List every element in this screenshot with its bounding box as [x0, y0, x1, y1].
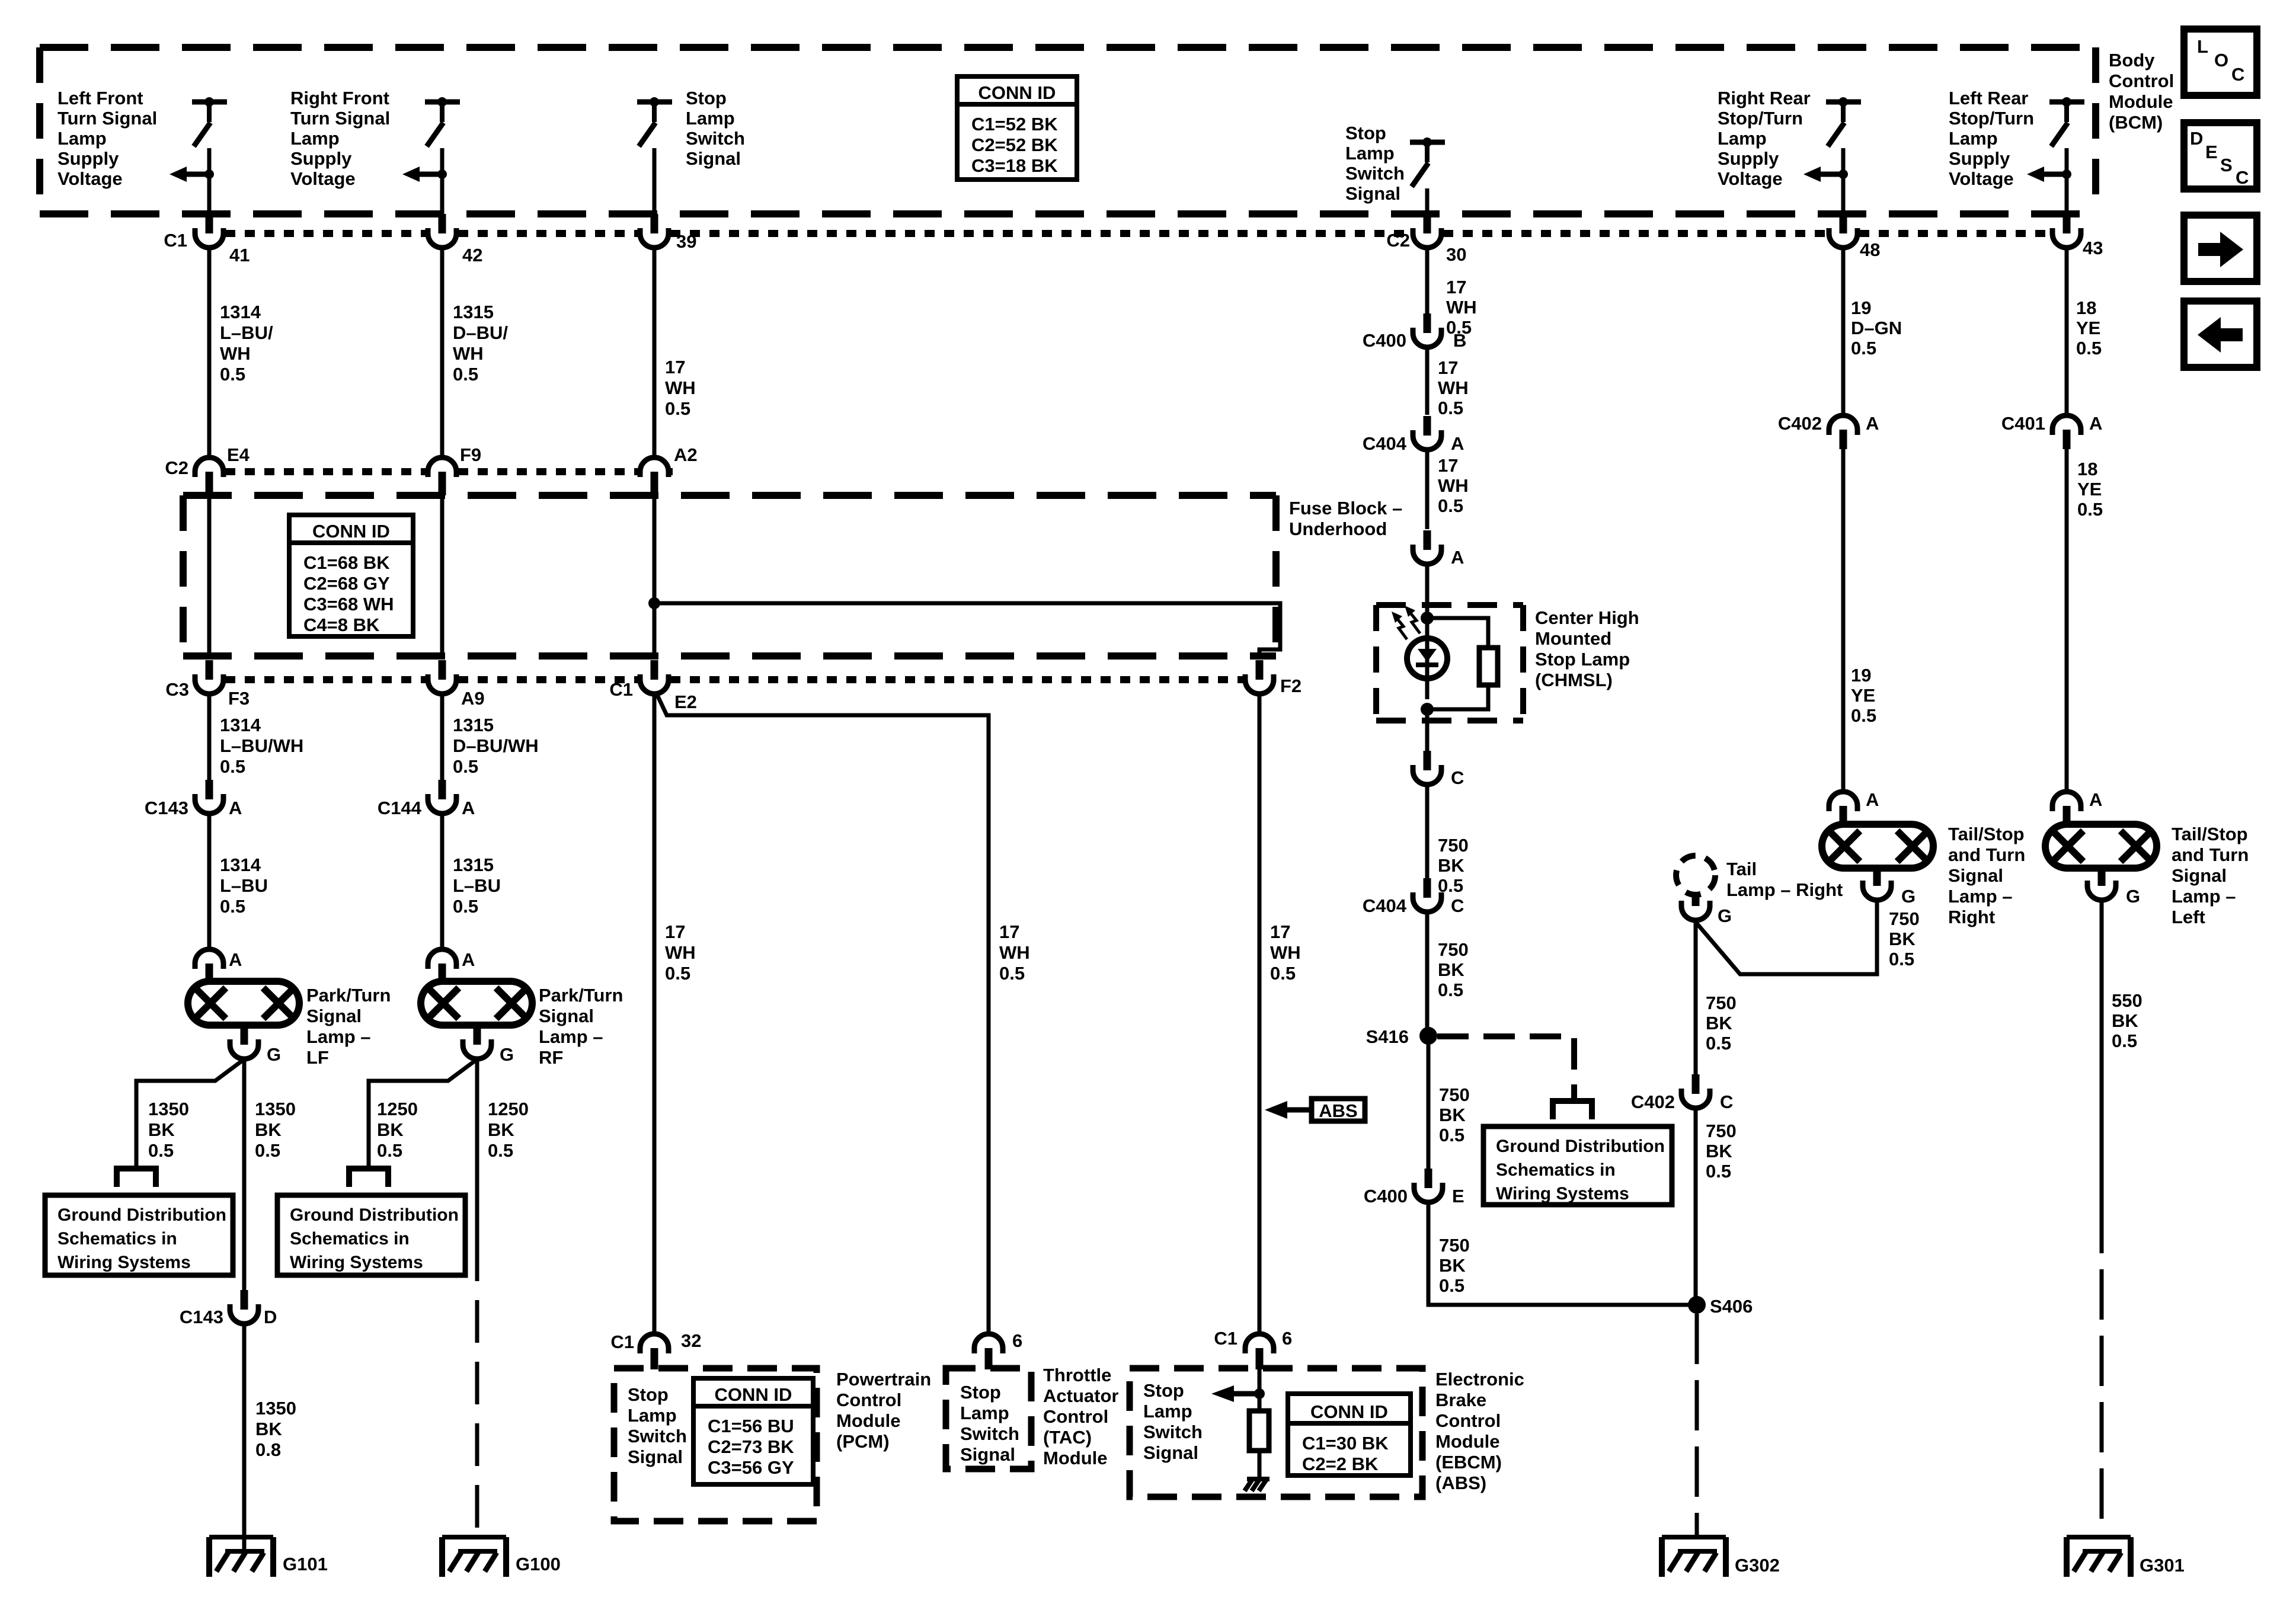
harness dotted line row 2: [225, 468, 426, 475]
svg-text:C2=68 GY: C2=68 GY: [303, 573, 390, 594]
svg-text:G: G: [500, 1044, 514, 1065]
svg-text:A: A: [462, 949, 475, 970]
svg-text:C3: C3: [165, 679, 189, 700]
wire through fuse block col B: [440, 495, 445, 660]
svg-text:A: A: [1866, 789, 1879, 810]
dashed wire to G302: [1695, 1314, 1699, 1537]
svg-text:C2: C2: [1386, 230, 1410, 251]
svg-text:G301: G301: [2140, 1555, 2185, 1576]
connector pin 42: [439, 214, 446, 233]
wire through fuse block col A: [207, 495, 212, 660]
connector pin A (RR lamp): [1829, 792, 1857, 811]
svg-text:G: G: [267, 1044, 281, 1065]
connector C2 pin 30: [1424, 214, 1431, 233]
connector pin F9: [428, 457, 456, 477]
svg-text:C3=56 GY: C3=56 GY: [708, 1457, 794, 1478]
switch Stop Lamp Switch Signal (right): [1410, 140, 1445, 145]
connector pin A (LR lamp): [2052, 792, 2081, 811]
connector pin 43: [2063, 214, 2071, 233]
Electronic Brake Control Module dashed box: [1130, 1368, 1422, 1497]
connector C404 pin A: [1424, 416, 1431, 436]
svg-text:C3=18 BK: C3=18 BK: [971, 155, 1058, 176]
wire 750 BK 0.5 to S406: [1428, 1202, 1697, 1305]
svg-text:Fuse Block –Underhood: Fuse Block –Underhood: [1289, 498, 1402, 539]
off-page ground clamp (RF): [349, 1169, 388, 1187]
connector C143 pin A: [206, 780, 213, 799]
svg-text:A: A: [229, 949, 242, 970]
wire 750 BK 0.5 (RR lamp ground): [1696, 900, 1877, 974]
connector pin A9: [439, 660, 446, 680]
ABS reference arrow and box: [1265, 1101, 1287, 1119]
wire 17 WH 0.5: [1425, 450, 1430, 529]
lamp Tail/Stop and Turn Signal Lamp - Left: [2045, 824, 2157, 868]
svg-text:48: 48: [1860, 239, 1880, 260]
connector pin A2: [640, 457, 669, 477]
svg-text:C402: C402: [1631, 1092, 1675, 1112]
connector C1 pin E2: [651, 660, 658, 680]
Fuse Block - Underhood dashed box: [183, 492, 1276, 499]
svg-text:C: C: [1451, 767, 1464, 788]
switch Stop Lamp Switch Signal (left): [637, 100, 672, 105]
svg-text:A: A: [229, 798, 242, 818]
svg-text:C1: C1: [1214, 1328, 1237, 1349]
svg-text:A: A: [1866, 413, 1879, 434]
wire 1350 BK 0.8 to G101: [242, 1324, 247, 1551]
svg-text:C: C: [2236, 167, 2249, 188]
svg-text:C143: C143: [145, 798, 188, 818]
svg-text:E2: E2: [674, 692, 697, 712]
legend arrow left box: [2184, 301, 2257, 367]
connector C2 pin E4: [195, 457, 223, 477]
svg-text:G: G: [1901, 886, 1916, 907]
wire 750 BK 0.5: [1427, 1036, 1431, 1169]
wire 1314 L-BU 0.5: [207, 814, 212, 949]
svg-text:ABS: ABS: [1319, 1100, 1357, 1121]
wire from F2 down to EBCM: [1258, 694, 1262, 1334]
svg-text:C1=56 BU: C1=56 BU: [708, 1416, 794, 1436]
svg-text:G100: G100: [516, 1554, 561, 1574]
lamp Park/Turn Signal Lamp - LF: [188, 981, 299, 1025]
resistor (EBCM): [1249, 1411, 1269, 1451]
svg-text:C: C: [2231, 64, 2244, 85]
node splice S416: [1419, 1027, 1437, 1045]
connector pin A (RF lamp): [428, 949, 456, 969]
ground G100: [442, 1535, 506, 1539]
dashed branch from S416 to ground ref: [1437, 1036, 1574, 1099]
CONN ID table (BCM connectors): [957, 76, 1077, 180]
DESC legend box: [2184, 123, 2257, 189]
wire 1315 D-BU/WH 0.5 (right front): [440, 248, 445, 458]
connector C400 pin E: [1425, 1169, 1432, 1188]
connector pin G (LR lamp): [2098, 868, 2106, 886]
off-page ground clamp (S416): [1553, 1101, 1592, 1119]
lamp Park/Turn Signal Lamp - RF: [421, 981, 532, 1025]
wire into CHMSL: [1425, 564, 1430, 618]
svg-text:G: G: [1718, 905, 1732, 926]
wire 17 WH 0.5 (stop lamp switch signal): [653, 248, 657, 458]
svg-text:E: E: [1452, 1186, 1464, 1206]
svg-text:G101: G101: [283, 1554, 328, 1574]
wire 1350 BK 0.5 down to C143 D: [242, 1059, 247, 1290]
svg-text:43: 43: [2083, 238, 2103, 258]
svg-text:C401: C401: [2001, 413, 2045, 434]
svg-text:O: O: [2214, 50, 2228, 71]
LED emission arrows: [1395, 616, 1407, 639]
connector pin 48: [1840, 214, 1847, 233]
ground G101: [209, 1535, 273, 1539]
svg-text:G302: G302: [1735, 1555, 1780, 1576]
svg-text:CONN ID: CONN ID: [978, 82, 1056, 103]
svg-text:C1=30 BK: C1=30 BK: [1302, 1433, 1389, 1454]
wire 17 WH 0.5 from C2-30: [1425, 248, 1430, 313]
svg-text:E: E: [2205, 142, 2218, 162]
wire from E2 down to PCM: [653, 694, 657, 1334]
svg-text:C400: C400: [1364, 1186, 1408, 1206]
switch Right Front Turn Signal Lamp Supply Voltage: [425, 100, 460, 105]
wire branch to F2 inside fuse block: [654, 603, 1280, 660]
wire 1314 L-BU/WH 0.5 to C143: [207, 694, 212, 780]
svg-text:41: 41: [229, 245, 250, 265]
connector C1 pin 41: [206, 214, 213, 233]
svg-text:C1: C1: [610, 1331, 634, 1352]
connector C402 pin A: [1829, 415, 1857, 435]
svg-text:C1: C1: [609, 679, 633, 700]
ground G301: [2067, 1535, 2131, 1539]
svg-text:D: D: [264, 1307, 277, 1327]
wire 750 BK 0.5: [1425, 912, 1430, 1036]
svg-text:C143: C143: [180, 1307, 223, 1327]
svg-text:C400: C400: [1363, 330, 1406, 351]
LOC legend box: [2184, 29, 2257, 95]
Throttle Actuator Control Module dashed box: [946, 1368, 1031, 1469]
harness dotted line row 1: [225, 230, 426, 237]
node junction in fuse block: [648, 597, 660, 609]
svg-text:C2=52 BK: C2=52 BK: [971, 135, 1058, 155]
CONN ID table (fuse block): [289, 515, 413, 636]
Powertrain Control Module dashed box: [614, 1368, 817, 1521]
node top junction (CHMSL): [1421, 612, 1434, 625]
connector pin G (RF lamp): [474, 1025, 481, 1045]
node bottom junction (CHMSL): [1421, 703, 1434, 716]
wire 1350 BK 0.5 branch to ground ref: [136, 1060, 243, 1169]
svg-text:C144: C144: [378, 798, 422, 818]
svg-text:C: C: [1451, 895, 1464, 916]
svg-text:L: L: [2197, 36, 2208, 57]
connector pin G (tail lamp right): [1692, 893, 1700, 906]
svg-text:C402: C402: [1778, 413, 1822, 434]
wire to internal ground (EBCM): [1258, 1451, 1262, 1478]
wire 18 YE 0.5: [2065, 449, 2069, 792]
connector C400 pin B: [1424, 313, 1431, 333]
connector pin C (below CHMSL): [1424, 751, 1431, 770]
connector pin G (RR lamp): [1873, 868, 1881, 886]
CHMSL dashed box Center High Mounted Stop Lamp: [1376, 602, 1523, 608]
CONN ID table (EBCM): [1288, 1394, 1411, 1475]
wire out of CHMSL: [1425, 709, 1430, 751]
wire 550 BK 0.5: [2100, 900, 2104, 1203]
wire 17 WH 0.5: [1425, 347, 1430, 415]
svg-text:E4: E4: [227, 444, 250, 465]
svg-text:C3=68 WH: C3=68 WH: [303, 594, 394, 614]
svg-text:A: A: [1451, 433, 1464, 454]
wire 1314 L-BU/WH 0.5 (left front): [207, 248, 212, 458]
connector pin G (LF lamp): [241, 1025, 248, 1045]
svg-text:C1=68 BK: C1=68 BK: [303, 552, 390, 573]
svg-text:F9: F9: [460, 444, 481, 465]
svg-text:CONN ID: CONN ID: [715, 1384, 792, 1405]
Ground Distribution Schematics box (S416): [1483, 1126, 1672, 1205]
svg-text:C404: C404: [1363, 433, 1407, 454]
Ground Distribution Schematics box (RF): [277, 1195, 465, 1275]
svg-text:39: 39: [676, 231, 696, 252]
wire inside EBCM: [1258, 1369, 1262, 1411]
svg-text:S: S: [2220, 155, 2233, 175]
off-page ground clamp (LF): [117, 1169, 156, 1187]
wire 18 YE 0.5: [2065, 248, 2069, 415]
svg-text:C: C: [1720, 1092, 1733, 1112]
legend arrow right box: [2184, 215, 2257, 281]
wire 750 BK 0.5 to C402 C: [1694, 920, 1698, 1074]
resistor (CHMSL): [1427, 618, 1488, 648]
connector pin A (LF lamp): [195, 949, 223, 969]
wire 1315 L-BU 0.5: [440, 814, 445, 949]
svg-text:C404: C404: [1363, 895, 1407, 916]
lamp Tail/Stop and Turn Signal Lamp - Right: [1822, 824, 1933, 868]
switch Left Rear Stop/Turn Lamp Supply Voltage: [2049, 100, 2084, 105]
switch Right Rear Stop/Turn Lamp Supply Voltage: [1826, 100, 1861, 105]
svg-text:F3: F3: [228, 688, 250, 709]
svg-text:CONN ID: CONN ID: [1310, 1401, 1388, 1422]
node splice S406: [1688, 1296, 1706, 1314]
svg-text:30: 30: [1446, 244, 1466, 265]
wire 1250 BK 0.5 branch to ground ref: [369, 1060, 476, 1169]
Tail Lamp - Right dashed bulb: [1676, 856, 1715, 895]
wire branch E2 to TAC: [657, 695, 989, 1334]
wire 19 D-GN 0.5: [1841, 248, 1846, 415]
svg-text:6: 6: [1012, 1330, 1022, 1351]
svg-text:G: G: [2126, 886, 2140, 907]
node junction (EBCM): [1254, 1388, 1265, 1399]
connector pin 6 (TAC): [974, 1334, 1003, 1353]
connector C144 pin A: [439, 780, 446, 799]
wire 19 YE 0.5: [1841, 449, 1846, 792]
wire 1315 D-BU/WH 0.5 to C144: [440, 694, 445, 780]
svg-text:A: A: [1451, 547, 1464, 568]
svg-text:C1: C1: [164, 230, 187, 251]
svg-text:A: A: [462, 798, 475, 818]
dashed wire to G301: [2100, 1203, 2104, 1537]
svg-text:C4=8 BK: C4=8 BK: [303, 614, 380, 635]
svg-text:C2=2 BK: C2=2 BK: [1302, 1454, 1379, 1474]
svg-text:A: A: [2089, 413, 2102, 434]
connector pin A (into CHMSL): [1424, 530, 1431, 550]
dashed wire to G100: [475, 1238, 479, 1537]
ground internal (EBCM): [1247, 1477, 1269, 1481]
svg-text:A2: A2: [674, 444, 698, 465]
svg-text:CONN ID: CONN ID: [312, 521, 390, 542]
BCM dashed box (Body Control Module): [40, 44, 2096, 51]
wire 1250 BK 0.5 down to G100: [475, 1059, 479, 1238]
wire 750 BK 0.5: [1425, 785, 1430, 878]
connector C402 pin C: [1692, 1074, 1700, 1094]
Ground Distribution Schematics box (LF): [45, 1195, 233, 1275]
svg-text:C2: C2: [165, 457, 188, 478]
connector C401 pin A: [2052, 415, 2081, 435]
switch Left Front Turn Signal Lamp Supply Voltage: [192, 100, 227, 105]
CONN ID table (PCM): [693, 1378, 813, 1484]
svg-text:B: B: [1453, 330, 1466, 351]
svg-text:D: D: [2190, 128, 2203, 149]
connector C143 pin D: [241, 1290, 248, 1310]
svg-text:F2: F2: [1280, 676, 1302, 696]
harness dotted line row 3: [225, 676, 426, 683]
connector pin F2: [1256, 660, 1264, 680]
wire through fuse block col C with branch to F2: [653, 495, 657, 660]
svg-text:C2=73 BK: C2=73 BK: [708, 1436, 794, 1457]
LED lamp symbol (CHMSL): [1407, 638, 1447, 678]
svg-text:32: 32: [681, 1330, 701, 1351]
connector C1 pin 6 (EBCM): [1245, 1334, 1274, 1353]
svg-text:S416: S416: [1366, 1026, 1409, 1047]
connector pin 39: [651, 214, 658, 233]
connector C1 pin 32 (PCM): [640, 1334, 669, 1353]
svg-text:A: A: [2089, 789, 2102, 810]
connector C404 pin C: [1424, 878, 1431, 898]
svg-text:6: 6: [1282, 1328, 1292, 1349]
svg-text:A9: A9: [461, 688, 485, 709]
svg-text:ThrottleActuatorControl(TAC)Mo: ThrottleActuatorControl(TAC)Module: [1043, 1365, 1118, 1468]
wire 750 BK 0.5 to S406: [1694, 1108, 1698, 1305]
connector C3 pin F3: [206, 660, 213, 680]
ground G302: [1662, 1535, 1726, 1539]
arrow left inside EBCM: [1233, 1391, 1256, 1397]
svg-text:C1=52 BK: C1=52 BK: [971, 114, 1058, 135]
svg-text:S406: S406: [1710, 1296, 1753, 1317]
svg-text:42: 42: [462, 245, 482, 265]
